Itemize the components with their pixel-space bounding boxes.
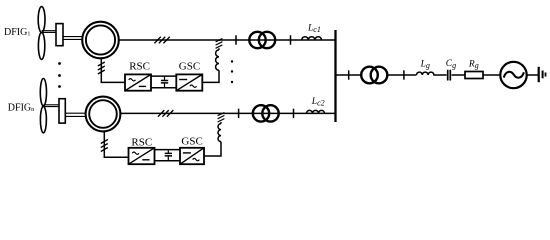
svg-text:RSC: RSC [129,61,150,73]
svg-text:DFIGn: DFIGn [8,102,35,113]
svg-text:GSC: GSC [179,61,200,73]
svg-text:Lc2: Lc2 [311,97,325,108]
svg-text:RSC: RSC [131,136,152,148]
svg-text:Cg: Cg [446,59,456,70]
svg-text:Rg: Rg [468,59,479,70]
svg-text:GSC: GSC [181,136,202,148]
svg-text:DFIG1: DFIG1 [4,27,30,38]
svg-text:Lg: Lg [420,60,430,71]
svg-text:Lc1: Lc1 [307,24,321,35]
